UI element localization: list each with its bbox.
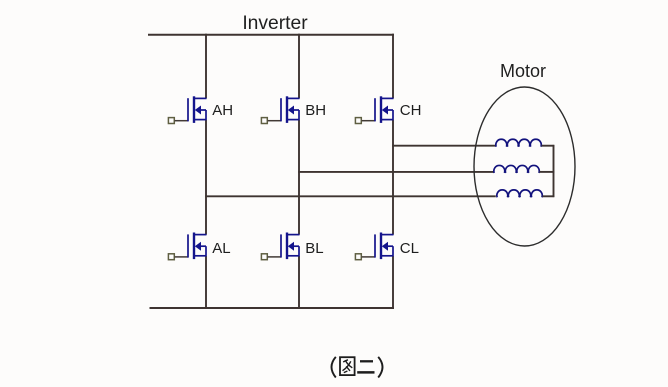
svg-text:Motor: Motor <box>500 61 546 81</box>
transistor CL <box>355 233 393 260</box>
transistor AH <box>168 96 206 123</box>
transistor AL <box>168 233 206 260</box>
transistor BH <box>261 96 299 123</box>
wire phase B winding to star <box>540 171 555 173</box>
svg-text:Inverter: Inverter <box>242 13 308 34</box>
wire leg A lower <box>205 256 207 308</box>
caption "(图二)" <box>332 357 383 378</box>
wire phase C winding to star <box>542 145 555 147</box>
inductor phase C winding <box>496 139 541 146</box>
inductor phase B winding <box>494 165 539 172</box>
transistor CH <box>355 96 393 123</box>
wire leg B upper <box>298 34 300 99</box>
wire phase C <box>392 145 496 147</box>
wire leg A middle <box>205 120 207 235</box>
svg-text:CH: CH <box>400 102 422 119</box>
svg-text:CL: CL <box>400 240 419 257</box>
svg-text:AL: AL <box>212 240 230 257</box>
wire leg B middle <box>298 120 300 235</box>
wire leg C upper <box>392 34 394 99</box>
wire phase A <box>205 195 496 197</box>
motor M1 outline <box>474 87 575 246</box>
wire bottom DC bus <box>150 307 395 309</box>
svg-text:BH: BH <box>305 102 326 119</box>
svg-text:BL: BL <box>305 240 323 257</box>
wire leg C middle <box>392 120 394 235</box>
wire phase B <box>298 171 494 173</box>
wire top DC bus <box>148 34 394 36</box>
wire star point bus <box>553 145 555 197</box>
svg-text:AH: AH <box>212 102 233 119</box>
inductor phase A winding <box>497 190 542 197</box>
wire phase A winding to star <box>543 195 555 197</box>
transistor BL <box>261 233 299 260</box>
wire leg C lower <box>392 256 394 308</box>
wire leg A upper <box>205 34 207 99</box>
wire leg B lower <box>298 256 300 308</box>
